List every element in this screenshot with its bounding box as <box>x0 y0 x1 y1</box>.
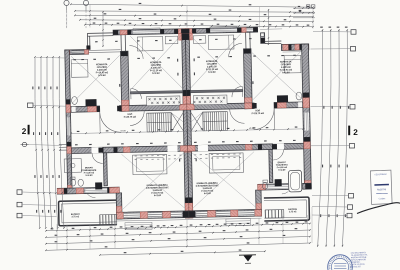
svg-text:2: 2 <box>22 127 27 136</box>
wc fixtures upper <box>72 97 78 105</box>
left markers <box>28 103 34 108</box>
svg-text:2.72 м2: 2.72 м2 <box>289 210 297 213</box>
svg-text:h=2.60: h=2.60 <box>204 192 212 195</box>
left unit bathroom fixtures <box>64 159 81 173</box>
wall: mid horizontal A <box>67 106 100 112</box>
door arc shaft <box>130 89 132 99</box>
svg-text:±0.00: ±0.00 <box>249 127 255 130</box>
chimney dims top right <box>293 7 315 9</box>
svg-text:F=11.20 м2: F=11.20 м2 <box>150 69 163 72</box>
wall: bathroom side <box>103 153 107 186</box>
diagonal marks <box>130 35 182 89</box>
bed outer room <box>71 59 88 77</box>
wall: right front thin extension <box>265 40 281 42</box>
sill line under bulge <box>117 220 189 221</box>
svg-text:СПАЛНЯ: СПАЛНЯ <box>151 64 161 67</box>
svg-text:F=11.20 м2: F=11.20 м2 <box>206 68 219 71</box>
svg-text:ХОЛ: ХОЛ <box>127 113 132 116</box>
svg-text:2: 2 <box>353 128 358 137</box>
balcony left steps <box>100 214 117 225</box>
wall: side bottom right <box>258 183 312 190</box>
bathtub right unit <box>288 170 302 193</box>
interior dim row mid <box>70 129 304 134</box>
bed centre room <box>137 36 163 51</box>
door arc balcony <box>85 188 95 198</box>
wall: right exterior <box>302 44 312 188</box>
stairs treads <box>147 113 172 132</box>
svg-text:F=25.75 м2: F=25.75 м2 <box>252 112 265 115</box>
party wall top dark <box>181 29 189 34</box>
wall: left exterior <box>65 50 72 193</box>
right markers <box>351 30 356 35</box>
svg-text:F=10.93 м2: F=10.93 м2 <box>96 71 109 74</box>
inner vertical dims <box>102 11 104 47</box>
interior dim row above wall B <box>75 144 78 145</box>
sill lines gap top left <box>88 49 120 52</box>
dotted strip <box>135 155 137 157</box>
svg-text:No287-Б: No287-Б <box>377 188 387 191</box>
svg-text:СПАЛНЯ: СПАЛНЯ <box>207 63 217 66</box>
svg-text:h=2.60: h=2.60 <box>98 74 106 77</box>
top dimension lines <box>71 4 313 7</box>
balcony left <box>59 200 117 226</box>
signature swoosh <box>357 203 400 214</box>
svg-text:СПАЛНЯ: СПАЛНЯ <box>97 66 107 69</box>
svg-text:±0.00: ±0.00 <box>120 129 126 132</box>
door arc bathroom <box>92 153 103 164</box>
ledge on left wall <box>59 143 67 145</box>
right dimension lines <box>318 30 323 248</box>
balcony right <box>264 197 310 221</box>
grid bubbles <box>64 0 69 5</box>
svg-text:3.20/3.40: 3.20/3.40 <box>281 66 291 69</box>
door arc hall second <box>130 111 145 126</box>
tilted approval tag <box>370 170 392 204</box>
wall: side bottom left <box>57 187 119 194</box>
wall: right front corner column <box>260 33 264 44</box>
top drop connectors <box>89 4 91 27</box>
svg-text:h=2.60: h=2.60 <box>152 72 160 75</box>
wall: left front thin extension <box>87 32 113 35</box>
svg-text:h=2.60: h=2.60 <box>282 71 290 74</box>
wall: top side right <box>281 44 308 51</box>
svg-text:h=2.60: h=2.60 <box>154 194 162 197</box>
window frames above top wall <box>133 28 160 30</box>
svg-text:3.20/3.40: 3.20/3.40 <box>97 68 107 71</box>
drop lines <box>56 224 58 250</box>
stair cut diagonals <box>171 112 183 131</box>
svg-text:София: София <box>379 197 386 200</box>
svg-text:F=10.93 м2: F=10.93 м2 <box>280 68 293 71</box>
section triangle <box>239 254 256 256</box>
svg-text:ХОЛ: ХОЛ <box>255 109 260 112</box>
wall: central party wall half <box>182 29 190 218</box>
svg-text:ОДОБРЯВАМ: ОДОБРЯВАМ <box>374 173 387 176</box>
round stamp <box>328 255 353 270</box>
stamp text block <box>351 251 369 268</box>
interior dim row under top wall <box>95 41 98 42</box>
interior dim row top rooms <box>73 59 76 60</box>
right unit bathroom fixtures <box>262 182 268 189</box>
svg-text:3.30/3.50: 3.30/3.50 <box>207 65 217 68</box>
wall: stair edge beam <box>130 91 183 94</box>
svg-text:h=2.60: h=2.60 <box>208 71 216 74</box>
section mark 2 right <box>348 126 350 136</box>
wall: mid horizontal B <box>71 146 187 154</box>
wall: bulge bottom half <box>117 211 190 219</box>
svg-text:2.72 м2: 2.72 м2 <box>72 215 80 218</box>
left dimension lines <box>35 57 40 228</box>
table living room <box>133 154 167 174</box>
bottom dimension lines <box>46 224 310 231</box>
wall: top side left <box>65 50 89 55</box>
svg-text:СПАЛНЯ: СПАЛНЯ <box>281 63 291 66</box>
svg-text:ВХ.No 287: ВХ.No 287 <box>351 265 362 268</box>
wall: top centre exterior (thick) <box>113 27 258 35</box>
stair shaft strip <box>146 96 180 106</box>
wall: bulge side <box>116 193 122 219</box>
wall: interior vertical left unit <box>121 51 130 111</box>
door arc hall <box>100 111 121 132</box>
balcony right steps <box>265 210 284 219</box>
entrance steps centre <box>125 222 152 230</box>
vertical dim marks in rooms <box>177 59 178 62</box>
svg-text:h=2.60: h=2.60 <box>278 169 286 172</box>
door arc bedroom <box>129 45 143 59</box>
svg-text:3.30/3.50: 3.30/3.50 <box>151 66 161 69</box>
svg-text:F=25.75 м2: F=25.75 м2 <box>124 116 137 119</box>
svg-text:h=2.60: h=2.60 <box>86 174 94 177</box>
level mark <box>22 142 26 146</box>
